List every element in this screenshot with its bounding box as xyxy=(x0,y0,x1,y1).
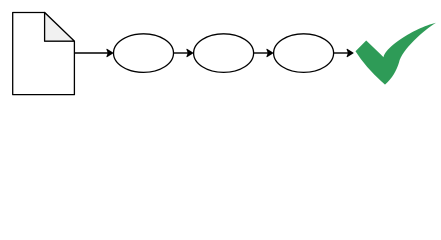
wire arrow 2 xyxy=(174,49,193,56)
wire arrow 3 xyxy=(254,49,273,56)
green checkmark xyxy=(356,23,437,85)
wire arrow 4 xyxy=(334,49,353,56)
ellipse 3 xyxy=(274,34,334,73)
document fold xyxy=(45,13,75,42)
document (note shape) xyxy=(13,13,75,95)
ellipse 1 xyxy=(114,34,174,73)
ellipse 2 xyxy=(194,34,254,73)
wire arrow 1 xyxy=(75,49,113,56)
